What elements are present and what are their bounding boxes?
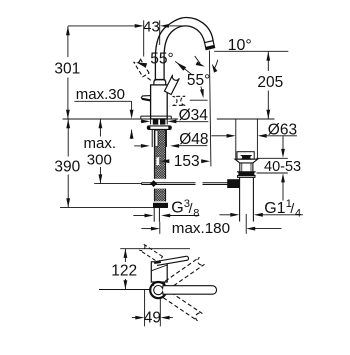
svg-text:300: 300 [87,151,112,168]
svg-text:390: 390 [54,158,80,175]
drain plug head [237,152,254,159]
svg-text:8: 8 [193,207,199,219]
drain centerline [245,214,247,234]
svg-text:205: 205 [257,74,283,91]
svg-text:49: 49 [144,309,161,326]
svg-text:122: 122 [111,263,137,280]
svg-text:G: G [171,200,183,217]
svg-text:40-53: 40-53 [264,159,301,175]
dim max.300 [99,119,103,128]
svg-text:153: 153 [174,153,200,170]
escutcheon plate [141,115,172,117]
dim 205 [266,52,270,61]
rod clamp [228,180,240,188]
pop-up rod [94,183,141,185]
shank bottom nut [154,203,168,207]
faucet body [151,85,168,119]
G3/8 supply pipe [153,208,155,222]
plan dashed spout up [158,257,205,293]
mounting hardware under deck [153,120,158,125]
svg-text:/: / [290,200,294,216]
svg-text:max.180: max.180 [172,220,230,237]
dim 153 [160,159,169,163]
plan spout bar [154,286,163,295]
solid raised lever [165,75,180,95]
outlet axis extension line [209,51,211,167]
svg-text:43: 43 [143,19,160,36]
countertop deck line [63,118,179,120]
svg-text:max.: max. [84,135,117,152]
spout arc [155,17,213,79]
dashed lever up-left [134,58,149,77]
plan dashed spout down [158,287,203,321]
centerline tick at 153 [159,158,161,165]
svg-text:301: 301 [54,61,80,78]
threaded shank hatched [154,130,165,179]
dim max.180 [141,228,151,230]
spout outlet aerator [205,41,215,50]
svg-text:/: / [189,200,193,216]
dashed lever horizontal [173,96,186,105]
drain neck [239,163,241,172]
drain flange [235,159,258,163]
dim 40-53 [257,157,288,159]
drain nut [237,172,256,176]
collar cartridge [154,80,166,85]
dim 43 [68,25,135,27]
plan dashed lever rotated [139,244,162,263]
closed lever stub [141,96,150,101]
svg-text:55°: 55° [150,51,173,68]
plan lever [156,256,188,265]
drain tailpipe [239,178,241,222]
dim 122 [120,248,190,250]
washer [147,126,171,129]
dim 301 [66,26,70,35]
svg-text:55°: 55° [187,72,210,89]
drain extension lines [235,120,237,159]
sleeve lines [151,130,153,148]
svg-text:max.30: max.30 [76,86,125,103]
plan handle body [151,262,167,282]
dim 49 [144,290,146,327]
dim 390 [66,119,70,128]
plan escutcheon circle [150,282,166,298]
faucet centerline extension [159,222,161,234]
svg-text:4: 4 [295,207,301,219]
